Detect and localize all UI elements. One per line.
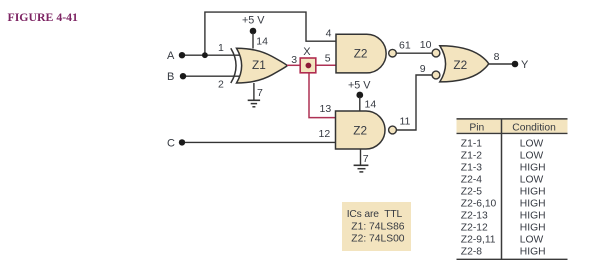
svg-text:4: 4 [326, 28, 332, 40]
svg-text:8: 8 [494, 51, 500, 63]
svg-text:1: 1 [218, 42, 224, 54]
wire: node X down to Z2 pin 13 (red) [309, 67, 336, 118]
note box: ICs are TTL [342, 202, 411, 251]
svg-text:+5 V: +5 V [348, 80, 371, 92]
wire: Z1 output to node X (red) [287, 64, 301, 66]
svg-text:9: 9 [420, 63, 426, 75]
svg-text:Z2-4: Z2-4 [461, 175, 482, 186]
wire: negative-OR pin 8 output to Y [489, 63, 513, 65]
wire: node X to Z2 pin 5 (red) [315, 64, 337, 66]
svg-text:HIGH: HIGH [520, 223, 546, 234]
ground under Z1 with pin 7 [248, 83, 263, 107]
wire: Z2 pin 6 to negative-OR pin 10 [397, 52, 432, 54]
svg-text:LOW: LOW [520, 175, 544, 186]
wire: input C to Z2 pin 12 [183, 141, 336, 143]
svg-text:HIGH: HIGH [520, 247, 546, 258]
svg-text:FIGURE 4-41: FIGURE 4-41 [8, 10, 79, 24]
svg-text:12: 12 [319, 128, 331, 140]
svg-text:C: C [167, 138, 175, 150]
svg-text:2: 2 [218, 79, 224, 91]
node C terminal dot [179, 139, 185, 145]
svg-text:Z2-5: Z2-5 [461, 187, 482, 198]
wire: bottom Z2 pin 11 to negative-OR pin 9 [397, 75, 432, 130]
svg-text:Z2-6,10: Z2-6,10 [461, 199, 497, 210]
junction dot on A line [202, 52, 208, 58]
svg-text:Z1: Z1 [252, 58, 266, 72]
svg-text:HIGH: HIGH [520, 163, 546, 174]
svg-text:Z1-2: Z1-2 [461, 151, 482, 162]
svg-text:3: 3 [291, 54, 297, 66]
svg-text:Z2: 74LS00: Z2: 74LS00 [351, 234, 405, 245]
svg-text:7: 7 [363, 153, 369, 165]
svg-text:Z2-8: Z2-8 [461, 247, 482, 258]
svg-text:11: 11 [400, 115, 411, 127]
svg-text:LOW: LOW [520, 235, 544, 246]
ground under bottom Z2 with pin 7 [354, 149, 369, 172]
svg-text:HIGH: HIGH [520, 187, 546, 198]
svg-text:14: 14 [256, 36, 268, 48]
svg-text:A: A [167, 50, 175, 62]
svg-text:Z1: 74LS86: Z1: 74LS86 [351, 222, 405, 233]
svg-text:Y: Y [521, 59, 529, 71]
svg-text:LOW: LOW [520, 151, 544, 162]
NAND gate Z2 (bottom) [336, 111, 397, 149]
node Y terminal dot [512, 61, 519, 68]
svg-text:HIGH: HIGH [520, 211, 546, 222]
svg-text:+5 V: +5 V [242, 14, 265, 26]
NAND gate Z2 (top) [336, 34, 396, 73]
svg-text:Pin: Pin [469, 122, 484, 133]
+5V supply for Z2 (bottom) [348, 80, 371, 112]
svg-text:5: 5 [325, 53, 331, 65]
node X highlight box [300, 58, 316, 73]
svg-text:Z2: Z2 [353, 123, 367, 137]
negative-OR gate Z2 (right) [432, 46, 489, 82]
svg-text:Z2: Z2 [453, 58, 467, 72]
svg-text:X: X [303, 46, 311, 58]
node B terminal dot [180, 73, 186, 79]
svg-text:ICs are TTL: ICs are TTL [347, 209, 403, 220]
svg-text:14: 14 [365, 99, 377, 111]
wire: junction on A up to top rail [205, 12, 337, 55]
svg-text:10: 10 [420, 39, 432, 51]
node X junction dot [306, 63, 312, 69]
svg-text:B: B [167, 71, 174, 83]
svg-text:Z1-3: Z1-3 [461, 163, 482, 174]
svg-text:Z1-1: Z1-1 [461, 139, 482, 150]
wire: input B to Z1 pin 2 [184, 75, 240, 77]
svg-text:HIGH: HIGH [520, 199, 546, 210]
svg-text:Z2-13: Z2-13 [461, 211, 488, 222]
svg-text:Z2: Z2 [354, 47, 368, 61]
XOR gate Z1 [231, 48, 287, 83]
svg-text:7: 7 [257, 87, 263, 99]
svg-text:LOW: LOW [520, 139, 544, 150]
svg-text:Condition: Condition [512, 122, 556, 133]
wire: input A to Z1 pin 1 [183, 54, 240, 56]
svg-text:Z2-12: Z2-12 [461, 223, 488, 234]
svg-text:Z2-9,11: Z2-9,11 [461, 235, 496, 246]
svg-text:61: 61 [399, 39, 411, 51]
table: pin conditions [457, 119, 568, 259]
svg-text:13: 13 [320, 103, 332, 115]
node A terminal dot [179, 52, 185, 58]
+5V supply for Z1 [242, 14, 265, 48]
